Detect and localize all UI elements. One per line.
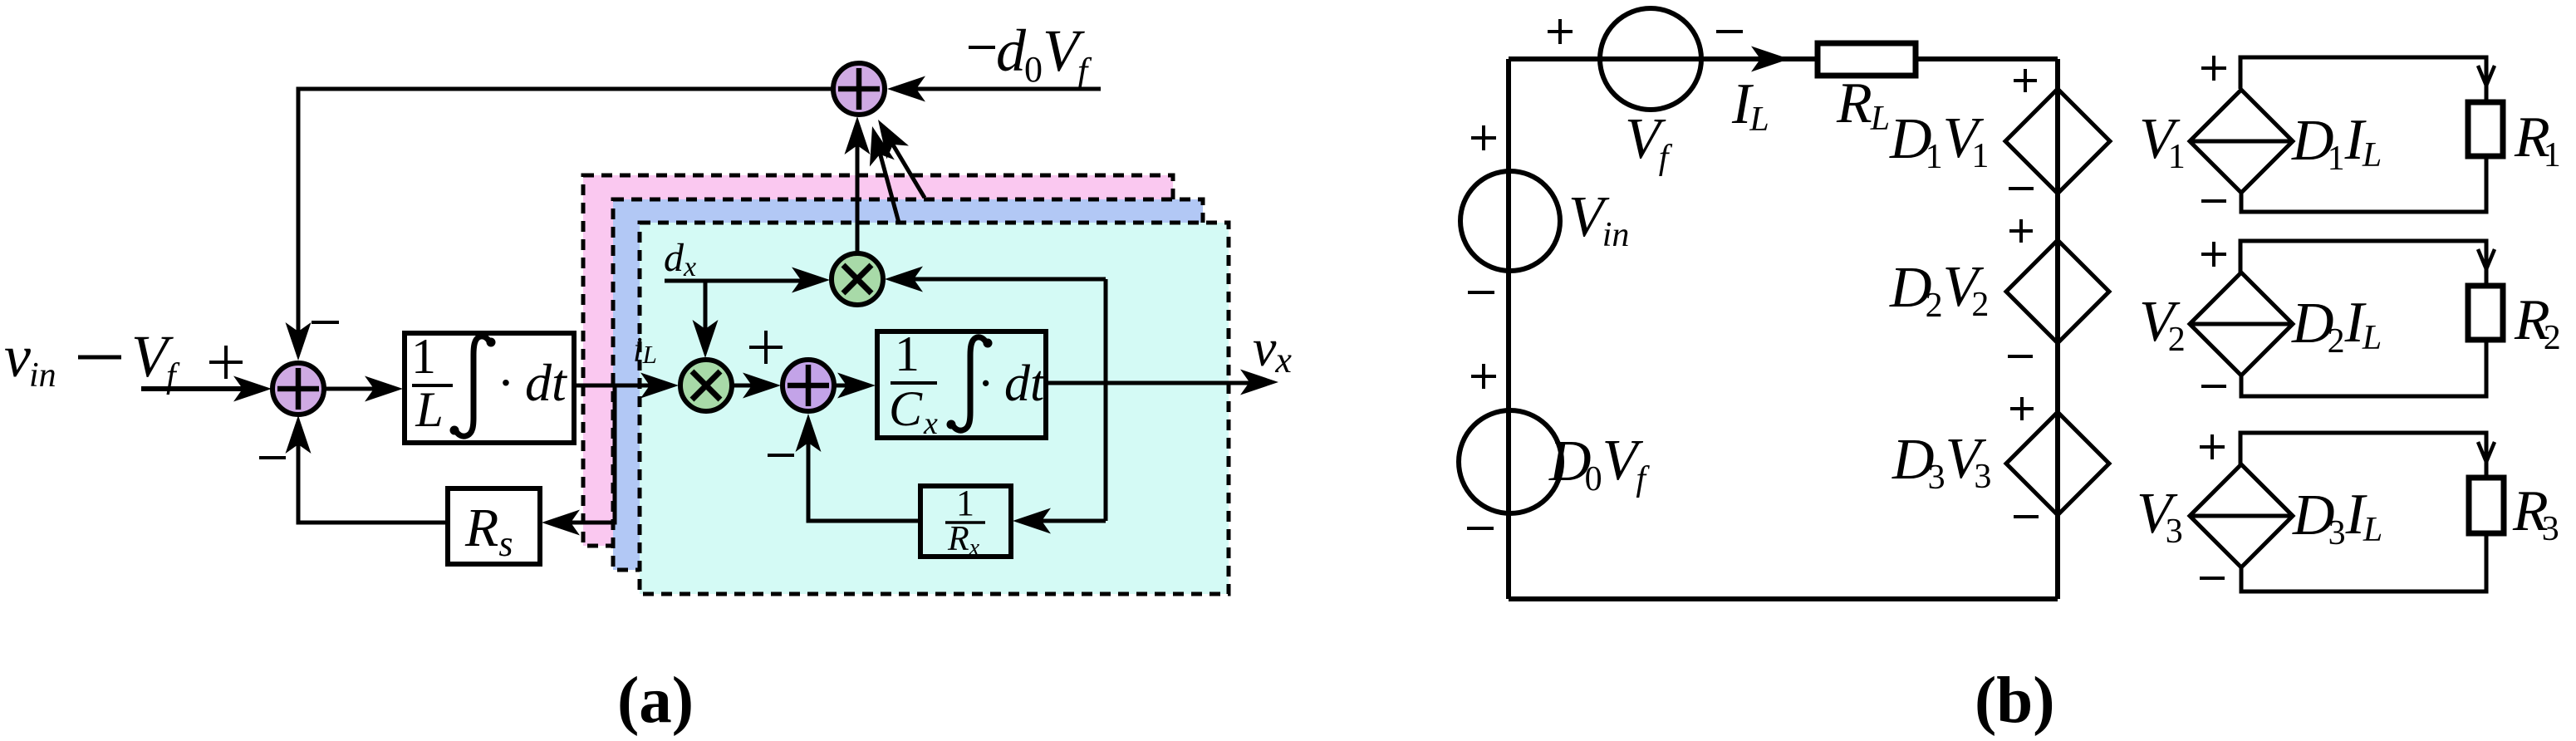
- wire M2 to summer S3: [732, 384, 768, 388]
- wire top feedback from top summer to main summer: [298, 89, 833, 349]
- wire branch into M1 right input: [897, 277, 1106, 282]
- arrow into R3: [2478, 442, 2486, 462]
- svg-text:x: x: [923, 406, 938, 441]
- dependent source D2IL (diamond): [2190, 272, 2293, 375]
- svg-text:d0Vf: d0Vf: [996, 17, 1092, 91]
- wire main loop top: [1509, 56, 2058, 61]
- minus sign at main summer top input: [312, 321, 339, 324]
- plus sign above D3V3: [2010, 407, 2034, 410]
- layer box pink (back): [583, 175, 1173, 546]
- source D0Vf (circle): [1459, 410, 1562, 513]
- source Vf (circle): [1600, 8, 1701, 110]
- minus sign below D3IL: [2200, 577, 2225, 580]
- plus sign at main summer left input: [209, 361, 243, 364]
- resistor R3: [2469, 478, 2504, 533]
- label -d0Vf: [969, 46, 995, 49]
- wire main loop right: [2055, 59, 2060, 599]
- resistor R1: [2468, 102, 2503, 156]
- svg-text:· dt: · dt: [498, 353, 568, 412]
- block Rs: [448, 488, 540, 564]
- multiplier M2 (circle times): [680, 360, 732, 411]
- svg-text:L: L: [415, 382, 443, 437]
- wire from pink layer to summer S1: [884, 130, 925, 198]
- wire summer S2 to integrator block B1: [324, 387, 390, 391]
- plus sign above D3IL: [2200, 445, 2225, 449]
- plus sign above D1V1: [2014, 79, 2037, 82]
- svg-text:C: C: [889, 381, 923, 436]
- minus sign below D2V2: [2008, 355, 2033, 358]
- wire input arrow into main summer: [141, 386, 249, 391]
- plus sign above Vin: [1471, 136, 1496, 140]
- dependent source D3V3 (diamond): [2006, 412, 2109, 515]
- plus sign left of Vf: [1548, 30, 1573, 33]
- resistor R2: [2468, 286, 2503, 340]
- block B2 integrator 1/Cx: [877, 331, 1046, 438]
- minus sign right of Vf: [1716, 30, 1743, 33]
- wire loop2: [2240, 241, 2486, 286]
- svg-text:1: 1: [956, 483, 974, 523]
- dependent source D2V2 (diamond): [2006, 240, 2109, 343]
- layer box blue (middle): [613, 199, 1203, 570]
- source Vin (circle): [1460, 171, 1560, 271]
- wire main loop left: [1506, 59, 1511, 599]
- summer S1 (top, circle plus): [833, 63, 885, 115]
- wire branch down to Rs: [556, 385, 615, 523]
- wire dx branch down to multiplier M2: [704, 281, 708, 346]
- plus sign at summer S3 left input: [749, 346, 783, 349]
- svg-text:(a): (a): [617, 665, 694, 737]
- summer S3 (circle plus): [783, 360, 834, 411]
- minus sign below Vin: [1468, 291, 1494, 294]
- arrow into R2: [2478, 249, 2486, 269]
- minus sign below D1IL: [2201, 199, 2226, 203]
- minus sign below D2IL: [2201, 385, 2226, 388]
- wire B2 output vx: [1046, 381, 1250, 385]
- wire -d0Vf into top summer: [901, 87, 1101, 91]
- minus sign at main summer bottom input: [259, 456, 286, 459]
- wire main loop bottom: [1509, 596, 2058, 601]
- svg-text:· dt: · dt: [979, 356, 1046, 412]
- plus sign above D2V2: [2009, 229, 2033, 233]
- wire B3 output to summer S3 bottom: [808, 425, 920, 521]
- arrow into R1: [2478, 66, 2486, 86]
- plus sign above D1IL: [2201, 66, 2226, 70]
- wire loop3: [2240, 433, 2486, 478]
- svg-text:1: 1: [895, 326, 920, 381]
- wire dx to multiplier M1: [665, 279, 818, 283]
- wire vertical branch to M1 and 1/Rx: [1104, 279, 1108, 521]
- multiplier M1 (top, circle times): [832, 253, 883, 305]
- block B3 gain 1/Rx: [920, 486, 1011, 557]
- dependent source D1IL (diamond): [2190, 90, 2293, 193]
- plus sign above D2IL: [2201, 253, 2226, 256]
- block B1 integrator 1/L: [405, 333, 574, 443]
- plus sign above D0Vf: [1471, 375, 1496, 378]
- wire B1 output iL: [574, 384, 666, 388]
- dependent source D3IL (diamond): [2190, 464, 2293, 567]
- wire loop1: [2240, 57, 2486, 102]
- svg-text:1: 1: [411, 329, 436, 384]
- wire from blue layer to summer S1: [876, 137, 899, 223]
- wire Rs output to main summer bottom: [298, 427, 448, 523]
- minus sign below D0Vf: [1467, 527, 1494, 530]
- layer box cyan (front): [640, 223, 1229, 594]
- wire multiplier M1 output up to summer S1: [856, 126, 860, 253]
- minus sign at summer S3 bottom input: [768, 454, 794, 457]
- resistor RL: [1818, 43, 1916, 76]
- minus sign below D3V3: [2014, 515, 2039, 518]
- arrow IL on top wire: [1751, 47, 1789, 72]
- svg-text:(b): (b): [1975, 665, 2055, 737]
- summer S2 (main, circle plus): [272, 363, 324, 415]
- minus sign below D1V1: [2009, 187, 2034, 190]
- wire summer S3 to block B2: [834, 384, 864, 388]
- dependent source D1V1 (diamond): [2005, 89, 2110, 194]
- wire branch into block B3 right input: [1027, 519, 1106, 523]
